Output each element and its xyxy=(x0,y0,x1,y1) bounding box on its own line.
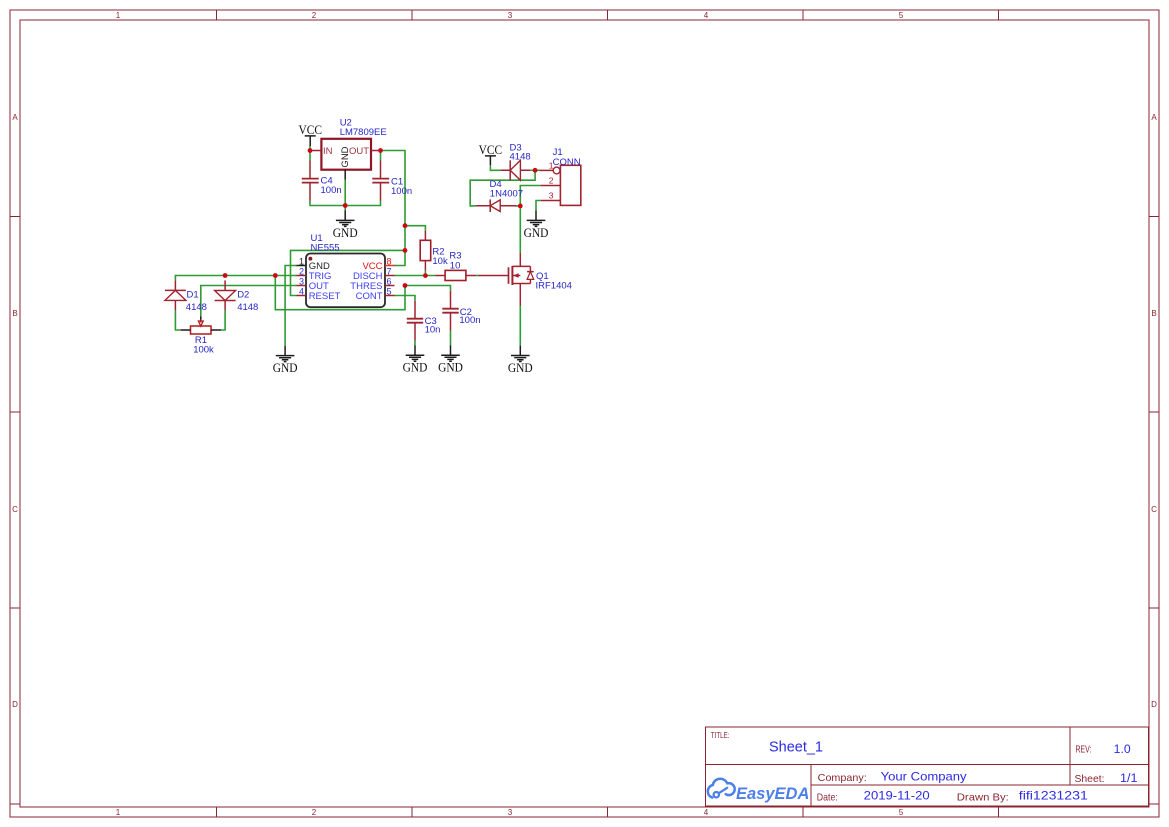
pin 8 VCC stub xyxy=(385,265,395,267)
pin 2 TRIG stub xyxy=(297,275,307,277)
wire ground rail under U2 (C4 - GND - C1) xyxy=(310,201,381,206)
svg-text:CONN: CONN xyxy=(553,157,581,168)
svg-text:GND: GND xyxy=(508,360,533,375)
TITLE BLOCK xyxy=(706,727,1149,806)
resistor R3 xyxy=(435,270,476,280)
svg-text:4148: 4148 xyxy=(186,302,207,313)
junction node D2 top on TRIG wire xyxy=(223,273,228,278)
wire OUT net: pin3 left and down to R1 wiper xyxy=(201,286,297,317)
svg-text:5: 5 xyxy=(899,11,904,20)
junction node TRIG tie vertical xyxy=(273,273,278,278)
wire D4 right stub to node xyxy=(515,205,520,207)
svg-text:D: D xyxy=(12,700,18,709)
wire D1 bottom to R1 left xyxy=(175,310,180,330)
svg-text:Drawn By:: Drawn By: xyxy=(957,791,1009,803)
svg-text:1: 1 xyxy=(116,808,121,817)
wire J1 pin3 to GND xyxy=(536,201,541,211)
svg-text:1/1: 1/1 xyxy=(1120,773,1138,785)
diode D2 (pointing down) xyxy=(215,280,236,310)
svg-text:C: C xyxy=(12,505,18,514)
svg-text:IRF1404: IRF1404 xyxy=(536,281,572,292)
svg-text:4: 4 xyxy=(704,11,709,20)
junction node ground rail xyxy=(343,203,348,208)
junction node D4-pin2-Q1 xyxy=(518,204,523,209)
svg-text:3: 3 xyxy=(508,11,513,20)
drain connection xyxy=(512,253,530,266)
wire TRIG-THRES tie below U1 xyxy=(275,276,405,310)
pin 3 OUT stub xyxy=(297,285,307,287)
svg-text:GND: GND xyxy=(403,360,428,375)
svg-text:TITLE:: TITLE: xyxy=(711,731,730,740)
svg-text:IN: IN xyxy=(323,146,333,157)
svg-text:B: B xyxy=(12,309,17,318)
junction node RESET rail tee xyxy=(403,248,408,253)
svg-text:5: 5 xyxy=(387,286,392,296)
transistor Q1 IRF1404 (NMOS) xyxy=(479,253,534,306)
pin 7 DISCH stub xyxy=(385,275,395,277)
svg-text:fifi1231231: fifi1231231 xyxy=(1019,789,1088,803)
svg-text:4: 4 xyxy=(704,808,709,817)
pin 4 RESET stub xyxy=(297,295,307,297)
potentiometer R1 xyxy=(181,316,221,334)
gate bar xyxy=(508,267,510,284)
wire THRES to C2 top xyxy=(405,286,451,291)
wire R3 right to Q1 gate xyxy=(476,275,479,277)
svg-text:Company:: Company: xyxy=(818,772,867,784)
wire TRIG net: pin2 left to D1 top xyxy=(175,276,296,281)
wire VCC2 flag down to D3 xyxy=(490,165,500,170)
junction node D3-J1pin1 xyxy=(533,168,538,173)
svg-text:Sheet:: Sheet: xyxy=(1075,774,1105,785)
gate lead xyxy=(479,275,509,277)
svg-text:1: 1 xyxy=(299,256,304,266)
svg-text:1: 1 xyxy=(116,11,121,20)
svg-text:100n: 100n xyxy=(391,186,412,197)
resistor R2 xyxy=(420,231,431,271)
wire C3 bottom to GND xyxy=(414,341,416,346)
source connection xyxy=(512,284,530,306)
svg-text:3: 3 xyxy=(549,191,554,201)
ground flag left (U1 pin1) xyxy=(273,346,298,375)
regulator U2 LM7809EE xyxy=(312,139,381,180)
svg-text:GND: GND xyxy=(273,360,298,375)
ground flag under U2 xyxy=(333,211,358,240)
svg-text:CONT: CONT xyxy=(356,291,383,302)
svg-text:OUT: OUT xyxy=(349,146,369,157)
svg-text:Sheet_1: Sheet_1 xyxy=(769,739,823,756)
svg-text:4148: 4148 xyxy=(510,152,531,163)
wire J1 pin2 down to D4 cathode node xyxy=(520,186,540,206)
wire RESET rail from x290.5 to x405 xyxy=(291,250,406,295)
connector J1 CONN xyxy=(540,161,581,206)
ground flag under C3 xyxy=(403,345,428,374)
svg-text:2: 2 xyxy=(312,808,317,817)
pin 5 CONT stub xyxy=(385,295,395,297)
junction node DISCH-R2-R3 xyxy=(423,273,428,278)
capacitor C2 xyxy=(442,291,458,331)
wire VCC flag to U2.IN / C4 node xyxy=(309,146,311,161)
ground flag under C2 xyxy=(438,345,463,374)
svg-text:100n: 100n xyxy=(321,185,342,196)
svg-text:GND: GND xyxy=(524,225,549,240)
svg-text:3: 3 xyxy=(299,276,304,286)
diode D1 (pointing up) xyxy=(165,280,186,310)
svg-text:VCC: VCC xyxy=(298,122,322,137)
wire U2 GND pin down to rail xyxy=(344,180,346,211)
svg-text:GND: GND xyxy=(438,360,463,375)
svg-text:Date:: Date: xyxy=(817,791,838,803)
body diode xyxy=(527,266,534,283)
wire C1 top lead stub xyxy=(380,151,382,161)
svg-text:1N4007: 1N4007 xyxy=(490,188,523,199)
ground flag under J1 pin3 xyxy=(524,211,549,240)
svg-text:LM7809EE: LM7809EE xyxy=(340,127,387,138)
svg-text:4: 4 xyxy=(299,286,304,296)
pin 1 GND stub xyxy=(297,265,307,267)
svg-text:3: 3 xyxy=(508,808,513,817)
svg-text:RESET: RESET xyxy=(309,291,341,302)
wire Q1 source to GND xyxy=(519,306,521,346)
wire CONT pin5 to C3 top xyxy=(394,296,415,301)
svg-text:2019-11-20: 2019-11-20 xyxy=(864,789,930,803)
svg-text:B: B xyxy=(1151,309,1156,318)
svg-text:1.0: 1.0 xyxy=(1114,742,1131,756)
capacitor C1 xyxy=(372,161,389,201)
svg-text:D: D xyxy=(1151,700,1157,709)
substrate arrow xyxy=(512,275,520,277)
svg-text:D1: D1 xyxy=(187,290,199,301)
svg-text:REV:: REV: xyxy=(1076,745,1092,756)
power flag VCC (right) xyxy=(479,142,503,165)
svg-text:10k: 10k xyxy=(432,256,448,267)
svg-text:2: 2 xyxy=(299,266,304,276)
svg-text:GND: GND xyxy=(333,225,358,240)
svg-text:VCC: VCC xyxy=(479,142,503,157)
svg-text:2: 2 xyxy=(549,176,554,186)
op-amp-style IC U1 NE555 xyxy=(297,254,395,308)
svg-text:EasyEDA: EasyEDA xyxy=(736,785,809,803)
junction node THRES tee xyxy=(403,283,408,288)
svg-text:D2: D2 xyxy=(237,290,249,301)
wire R2 top to VCC column xyxy=(405,226,425,231)
wire D3 to J1 pin1 xyxy=(530,169,539,171)
svg-text:2: 2 xyxy=(312,11,317,20)
diode D4 (pointing left) xyxy=(476,199,517,212)
svg-text:7: 7 xyxy=(387,266,392,276)
junction node R2 top tee xyxy=(403,223,408,228)
wire D2 bottom to R1 right xyxy=(221,310,225,330)
wire U1 pin1 GND down to ground xyxy=(285,266,296,346)
svg-text:6: 6 xyxy=(387,276,392,286)
svg-text:4148: 4148 xyxy=(237,302,258,313)
ground flag under Q1 xyxy=(508,346,533,375)
pin 6 THRES stub xyxy=(385,285,395,287)
wire node down to Q1 drain xyxy=(519,206,521,253)
svg-text:8: 8 xyxy=(387,256,392,266)
channel bar xyxy=(511,266,513,285)
svg-text:NE555: NE555 xyxy=(311,243,340,254)
svg-text:10n: 10n xyxy=(425,324,441,335)
diode D3 (pointing left) xyxy=(500,160,530,180)
capacitor C3 xyxy=(407,301,423,341)
wire D3 node down around to D4 anode xyxy=(470,170,535,206)
wire R2 bottom stub xyxy=(424,271,426,276)
wire C2 bottom to GND xyxy=(450,331,452,346)
svg-text:100n: 100n xyxy=(459,315,480,326)
capacitor C4 xyxy=(302,161,319,201)
power flag VCC (left) xyxy=(298,122,322,146)
junction node OUT-C1 xyxy=(378,148,383,153)
wire DISCH net pin7 to R2 bottom to R3 xyxy=(394,275,435,277)
SCHEMATIC xyxy=(165,118,581,376)
svg-text:A: A xyxy=(12,113,18,122)
wire U2.OUT to C1 and over to x405 down to U1 pin 8 xyxy=(381,151,406,266)
svg-text:10: 10 xyxy=(450,260,461,271)
svg-text:GND: GND xyxy=(340,146,351,167)
svg-text:C: C xyxy=(1151,505,1157,514)
svg-text:A: A xyxy=(1151,113,1157,122)
svg-text:100k: 100k xyxy=(193,345,214,356)
svg-text:5: 5 xyxy=(899,808,904,817)
svg-text:Your Company: Your Company xyxy=(881,770,967,784)
junction node VCC-IN-C4 xyxy=(308,148,313,153)
